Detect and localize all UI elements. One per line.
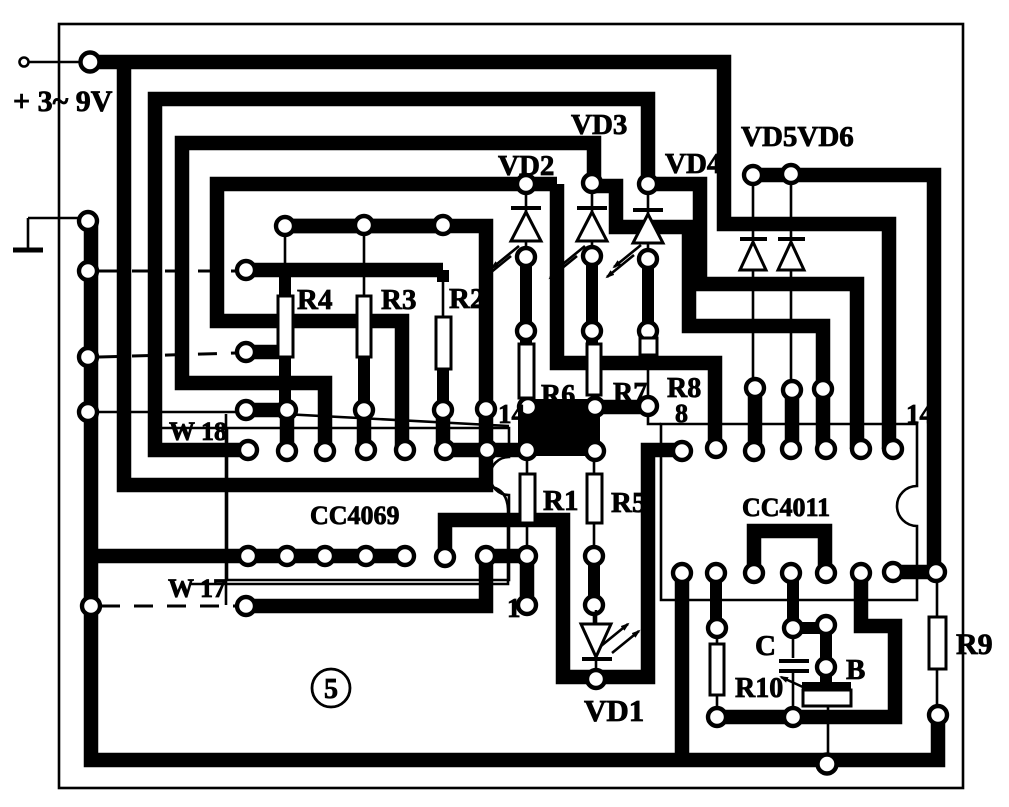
label R4 [297, 284, 332, 316]
label C [755, 630, 776, 662]
wire VD1 lead [595, 659, 598, 671]
svg-text:14: 14 [906, 399, 933, 429]
wire W17 trace [246, 556, 527, 606]
wire net4 right drop [557, 184, 715, 448]
label VD1 [584, 693, 644, 728]
label W18 [169, 417, 227, 446]
wire battery terminal lead [28, 61, 81, 64]
resistor R10 [710, 644, 724, 695]
svg-text:W 18: W 18 [169, 417, 227, 446]
wire B loop [716, 573, 895, 717]
resistor R9 [929, 617, 946, 669]
wire blob to R8 pad [595, 400, 648, 415]
wire R3 bottom lead [358, 357, 370, 410]
label R3 [381, 284, 416, 316]
svg-text:R4: R4 [297, 284, 332, 316]
wire ground bus [91, 218, 938, 760]
node pads CC4011 bottom row [673, 563, 945, 582]
svg-text:R9: R9 [956, 628, 993, 661]
label R7 [613, 378, 647, 409]
label R8 [667, 373, 701, 404]
wire VD6 lower link [785, 392, 800, 449]
op-amp U2 CC4011 outline [648, 414, 917, 600]
wire W18 pad pair link [246, 410, 287, 451]
wire ground branch to pin chain [91, 549, 248, 564]
label R2 [449, 283, 484, 315]
wire R2 pad link [436, 410, 451, 450]
label R1 [543, 485, 578, 517]
label battery [13, 85, 113, 118]
wire VD1 wrap trace [445, 450, 682, 677]
wire net2 loop [155, 99, 648, 450]
label R10 [735, 673, 783, 704]
diode VD5 [740, 239, 767, 270]
wire VD3 staircase [594, 186, 823, 449]
wire VD4 link [642, 259, 654, 338]
node blob junction R6 R7 [518, 399, 600, 456]
label B [846, 654, 865, 686]
node pads CC4011 top row [673, 439, 902, 460]
wire VD4 route [648, 184, 857, 449]
svg-text:B: B [846, 654, 865, 686]
svg-text:5: 5 [324, 674, 338, 705]
wire dashed W17 [101, 605, 237, 608]
wire pin to R10 [710, 573, 722, 628]
resistor R8 [640, 338, 657, 355]
node pads VD2 column [517, 175, 537, 416]
label pin 14 CC4011 [906, 399, 933, 429]
wire R5 leads [593, 456, 596, 624]
capacitor C [779, 634, 809, 710]
svg-text:+ 3~ 9V: + 3~ 9V [13, 85, 113, 118]
label R9 [956, 628, 993, 661]
resistor R5 [587, 474, 602, 523]
wire R8 lead [647, 355, 650, 399]
wire VD5 leads [752, 182, 755, 381]
node pads VD3 column [583, 174, 604, 460]
label pin 8 CC4011 [675, 399, 688, 428]
wire R5 pad link [588, 556, 600, 605]
resistor R7 [587, 344, 601, 395]
node pads left column [79, 53, 100, 616]
LED VD4 [607, 192, 663, 277]
wire R1 leads [526, 456, 529, 549]
svg-text:8: 8 [675, 399, 688, 428]
wire dashed W18 lower [99, 353, 237, 357]
svg-text:VD4: VD4 [665, 148, 721, 180]
wire net3 loop [182, 143, 594, 451]
wire link pin14 to outer pad [894, 565, 936, 580]
wire R3 pad link [357, 410, 372, 451]
svg-text:VD1: VD1 [584, 693, 644, 728]
label 5 badge [312, 669, 350, 707]
wire 9V branch left loop to pin row [124, 62, 486, 485]
wire W18 y352 stub [246, 345, 281, 360]
wire CC4011 inner U [754, 531, 825, 573]
node battery terminal [20, 58, 29, 67]
wire C node to B column [793, 628, 826, 684]
op-amp U1 CC4069 outline [157, 428, 509, 580]
svg-text:R2: R2 [449, 283, 484, 315]
node pads W18 column [237, 261, 495, 419]
label pin 1 CC4069 [507, 593, 521, 623]
wire R4 bottom lead [279, 357, 291, 410]
wire VD5-VD6 top link and route [753, 175, 934, 572]
wire net4 loop [217, 184, 557, 450]
label VD2 [498, 150, 554, 182]
wire R2 top lead [442, 279, 445, 317]
ground [13, 218, 80, 250]
svg-text:VD2: VD2 [498, 150, 554, 182]
label VD5 VD6 [741, 121, 854, 153]
node pads bottom right [708, 616, 947, 774]
label R5 [611, 487, 646, 519]
label pin 14 CC4069 [498, 399, 525, 429]
svg-text:R3: R3 [381, 284, 416, 316]
wire R4 chain-pad lead [284, 234, 287, 264]
resistor R3 [357, 296, 371, 357]
wire pin to C node [787, 573, 799, 628]
wire R3 top lead [363, 233, 366, 296]
wire R9 leads [936, 579, 939, 708]
wire R2 bottom lead [437, 369, 449, 410]
svg-text:VD3: VD3 [571, 109, 627, 141]
resistor R2 [436, 317, 451, 369]
svg-text:VD5VD6: VD5VD6 [741, 121, 854, 153]
wire thin to pin14 [246, 412, 509, 426]
svg-text:W 17: W 17 [168, 574, 226, 603]
wire 9V rail top [90, 62, 889, 449]
svg-text:CC4011: CC4011 [742, 493, 830, 522]
label CC4011 [742, 493, 830, 522]
resistor R4 [278, 296, 293, 357]
wire VD2 link [520, 257, 532, 345]
LED VD3 [550, 191, 607, 278]
svg-text:CC4069: CC4069 [310, 501, 400, 530]
wire W18 wiper vertical [225, 414, 228, 605]
resistor R6 [519, 344, 534, 398]
label VD4 [665, 148, 721, 180]
node pads top chain [276, 216, 452, 235]
wire VD6 leads [790, 181, 793, 383]
svg-text:14: 14 [498, 399, 525, 429]
wire VD5 lower link [748, 390, 763, 451]
label R6 [541, 380, 575, 411]
wire top chain R4 R3 R2 [285, 219, 444, 234]
node pads VD4 column [639, 175, 657, 415]
wire CC4069 top pin link [443, 443, 528, 458]
wire CC4069 bottom pin chain [248, 549, 405, 564]
node pads lower area [237, 547, 605, 688]
node pads CC4069 top row [239, 441, 536, 460]
svg-text:C: C [755, 630, 776, 662]
diode VD6 [778, 239, 805, 270]
buzzer B [781, 677, 851, 757]
node pads VD5 VD6 [744, 165, 832, 399]
svg-text:R5: R5 [611, 487, 646, 519]
svg-text:R6: R6 [541, 380, 575, 411]
wire VD3 link [586, 256, 598, 345]
LED VD1 [581, 610, 639, 660]
resistor R1 [520, 474, 535, 523]
svg-text:R1: R1 [543, 485, 578, 517]
svg-text:R7: R7 [613, 378, 647, 409]
label W17 [168, 574, 226, 603]
wire R4 top lead [279, 268, 291, 296]
wire y270 trace [246, 263, 443, 278]
node pads CC4069 bottom row [239, 547, 536, 566]
wire thin pad to W18 [97, 411, 237, 414]
wire pin7 to ground [675, 573, 690, 757]
wire R10 leads [716, 634, 719, 710]
LED VD2 [484, 192, 541, 278]
svg-text:R10: R10 [735, 673, 783, 704]
wire dashed W18 upper [99, 270, 236, 273]
svg-text:1: 1 [507, 593, 521, 623]
wire W17 thin wire [190, 487, 508, 584]
label CC4069 [310, 501, 400, 530]
wire R2 top hook [437, 270, 449, 282]
label VD3 [571, 109, 627, 141]
